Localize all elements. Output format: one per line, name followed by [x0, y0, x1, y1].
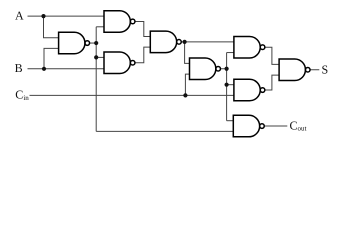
svg-text:B: B: [15, 61, 23, 75]
svg-text:S: S: [322, 62, 329, 76]
svg-text:Cout: Cout: [290, 118, 307, 132]
svg-text:A: A: [15, 8, 24, 22]
svg-text:Cin: Cin: [15, 88, 29, 102]
